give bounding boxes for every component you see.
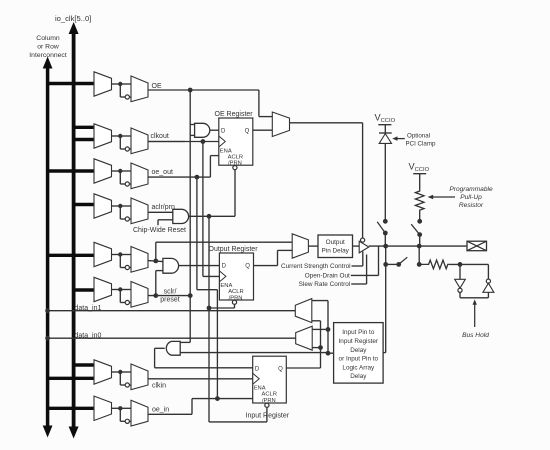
Output Register label [209,246,259,253]
OE register [219,118,253,167]
svg-text:Resistor: Resistor [459,202,484,209]
svg-text:clkout: clkout [151,133,169,140]
svg-text:D: D [222,264,227,270]
PCI clamp switch [377,219,387,236]
oe_out to output register ENA [197,289,218,291]
data_in0 label [75,332,102,339]
Output Pin Delay box [318,235,353,258]
svg-text:or Row: or Row [37,44,59,51]
OE register Q wire [253,129,272,131]
oe_out input mux pair [46,159,173,189]
AND gate (aclr + chip-wide reset) [173,209,189,223]
open-drain wire [351,246,379,275]
bus hold input wire [450,262,489,267]
Input Register label [246,413,290,420]
sclr/preset label [160,289,180,304]
output data input mux pair [46,242,148,272]
svg-text:Q: Q [245,264,250,270]
oe_out to OE register ENA [197,156,219,178]
OE register PRN bubble [233,166,237,170]
OE register D wire [210,129,219,131]
svg-text:Output Register: Output Register [209,246,259,253]
bus hold bottom wire [460,297,488,299]
svg-text:CCIO: CCIO [415,167,430,173]
svg-text:Logic Array: Logic Array [342,364,375,371]
Open-Drain Out label [305,273,350,280]
svg-text:Pull-Up: Pull-Up [460,194,482,201]
clkout to output register clock [203,275,220,277]
bus hold right inverter [483,264,494,297]
svg-text:or Input Pin to: or Input Pin to [339,356,379,363]
svg-text:Input Pin to: Input Pin to [342,329,375,336]
Current Strength Control label [281,263,351,270]
svg-text:Programmable: Programmable [449,186,493,193]
oe_in wire [148,399,253,415]
data_in1 wire [45,308,295,313]
AND gate (output data, sclr) [163,258,179,273]
svg-text:ACLR: ACLR [262,392,277,398]
fast output path wire [156,242,292,261]
svg-text:oe_out: oe_out [152,169,173,176]
input register [253,356,287,404]
input AND gate (OE, pin) [166,341,180,355]
delay box left wire [328,352,334,354]
bus hold switch [386,257,422,267]
svg-text:Optional: Optional [407,132,430,139]
svg-text:clkin: clkin [152,383,166,390]
PCI clamp pointer arrow [392,136,405,140]
svg-text:Output: Output [326,239,345,246]
data_in0 mux bottom input [312,347,320,349]
pin wire to AND and delay box [180,352,328,354]
output register D wire [179,265,220,267]
tri-state enable bubble [361,238,365,242]
Input Pin Delay box [334,323,384,384]
output register PRN wire [209,304,235,308]
svg-text:/PRN: /PRN [262,398,276,404]
clkout wire [148,141,185,143]
input register PRN wire [209,407,267,422]
output mux to delay box wire [308,245,318,247]
OE register PRN wire [234,170,236,217]
AND output to input register D [155,348,253,368]
I/O pin pad [467,241,487,251]
OE control wire [290,123,363,238]
pad net vertical (clamp) [384,233,386,246]
svg-text:PCI Clamp: PCI Clamp [406,140,436,147]
bus hold resistor [420,260,450,269]
OE to AND-A branch [190,125,194,136]
clkin label [152,383,166,390]
pull-up wire down [419,213,421,222]
svg-text:ACLR: ACLR [228,289,243,295]
svg-text:sclr/: sclr/ [164,289,177,296]
oe_in input mux pair [46,396,169,426]
programmable pull-up resistor [415,189,424,213]
sclr/preset wire [148,293,193,298]
Slew Rate Control label [299,281,351,288]
data_in1 label [75,305,102,312]
clkout vertical line [202,142,204,277]
output select mux [292,234,308,258]
svg-text:Column: Column [36,35,60,42]
Chip-Wide Reset label [133,227,186,234]
svg-text:CCIO: CCIO [381,118,396,124]
current strength control wire [352,252,363,267]
svg-text:ACLR: ACLR [228,154,243,160]
delay box right wire [383,352,386,354]
svg-text:D: D [221,129,226,135]
svg-text:D: D [255,367,260,373]
data_in0 mux top input [312,328,328,330]
OE vertical line [188,88,193,343]
svg-text:OE Register: OE Register [215,111,254,118]
aclr net wire to registers [189,214,235,219]
io_clk[5..0] label [55,14,91,23]
svg-text:Q: Q [278,367,283,373]
OE Register label [215,111,254,118]
oe_out junction [195,175,200,180]
chip-wide reset wire [158,220,173,225]
VCCIO rail (pull-up) [413,174,426,189]
output register Q wire [254,250,293,265]
Column or Row Interconnect label [29,35,67,59]
OE select mux [272,112,289,137]
svg-text:Chip-Wide Reset: Chip-Wide Reset [133,227,186,234]
svg-text:Q: Q [245,129,250,135]
input register PRN bubble [265,403,269,407]
svg-text:Open-Drain Out: Open-Drain Out [305,273,350,280]
input register Q wire [286,367,320,369]
svg-text:aclr/prn: aclr/prn [152,204,175,211]
svg-text:Current Strength Control: Current Strength Control [281,263,351,270]
aclr/prn wire [148,211,173,213]
clkout wire to OE register clock [148,141,219,143]
PCI clamp wire down [384,143,386,221]
svg-text:io_clk[5..0]: io_clk[5..0] [55,14,91,23]
clkout junction [201,139,206,144]
data_in0 mux [296,326,313,350]
Programmable Pull-Up Resistor label [449,186,493,209]
oe_out wire [148,176,197,178]
svg-text:Bus Hold: Bus Hold [462,332,489,339]
OE direct wire [190,90,272,117]
pull-up switch [411,219,422,237]
svg-text:Slew Rate Control: Slew Rate Control [299,281,351,288]
svg-text:Delay: Delay [350,373,367,380]
tri-state output buffer [359,241,369,253]
data_in1 mux [295,299,312,323]
clkout input mux pair [72,124,169,154]
bus hold left inverter [455,264,466,297]
sclr/preset input mux pair [72,277,148,307]
OE wire [148,89,190,91]
output data wire [148,259,163,264]
ena vertical line to input register [215,290,220,401]
svg-text:Input Register: Input Register [339,338,379,345]
output line to pin [369,244,467,249]
delay box to buffer wire [353,245,360,247]
register data vertical [312,321,323,368]
VCCIO label (pull-up) [409,162,430,174]
Bus Hold label [462,332,489,339]
VCCIO label (PCI clamp) [375,113,396,125]
bus hold pointer arrow [473,299,477,327]
clkin input mux pair [46,360,148,390]
output register PRN bubble [232,300,236,304]
slew rate wire [351,255,366,285]
OE input to AND [180,341,190,343]
io_clk bus (right, vertical) [69,22,79,439]
aclr/prn input mux pair [72,194,175,224]
data_in0 wire [45,336,296,341]
interconnect bus (left, vertical) [43,57,53,438]
pull-up pointer arrow [428,195,455,200]
pin data vertical [312,301,331,356]
sclr to AND wire [156,271,163,296]
svg-text:preset: preset [160,297,180,304]
output register [219,253,253,302]
clkin wire [148,378,253,380]
svg-text:Delay: Delay [350,347,367,354]
svg-text:Input Register: Input Register [246,413,290,420]
Optional PCI Clamp label [406,132,436,147]
VCCIO rail (PCI clamp) [378,125,391,133]
PCI clamp diode [379,133,392,143]
aclr vertical distribution [207,216,212,422]
svg-text:oe_in: oe_in [152,407,169,414]
AND gate (OE + clkout) for OE register [195,123,210,137]
OE input mux pair [46,72,162,102]
pad feedback vertical [383,246,388,353]
svg-text:Pin Delay: Pin Delay [322,248,350,255]
svg-text:OE: OE [152,83,162,90]
pull-up net vertical [418,235,421,265]
oe_out vertical line [196,177,198,290]
